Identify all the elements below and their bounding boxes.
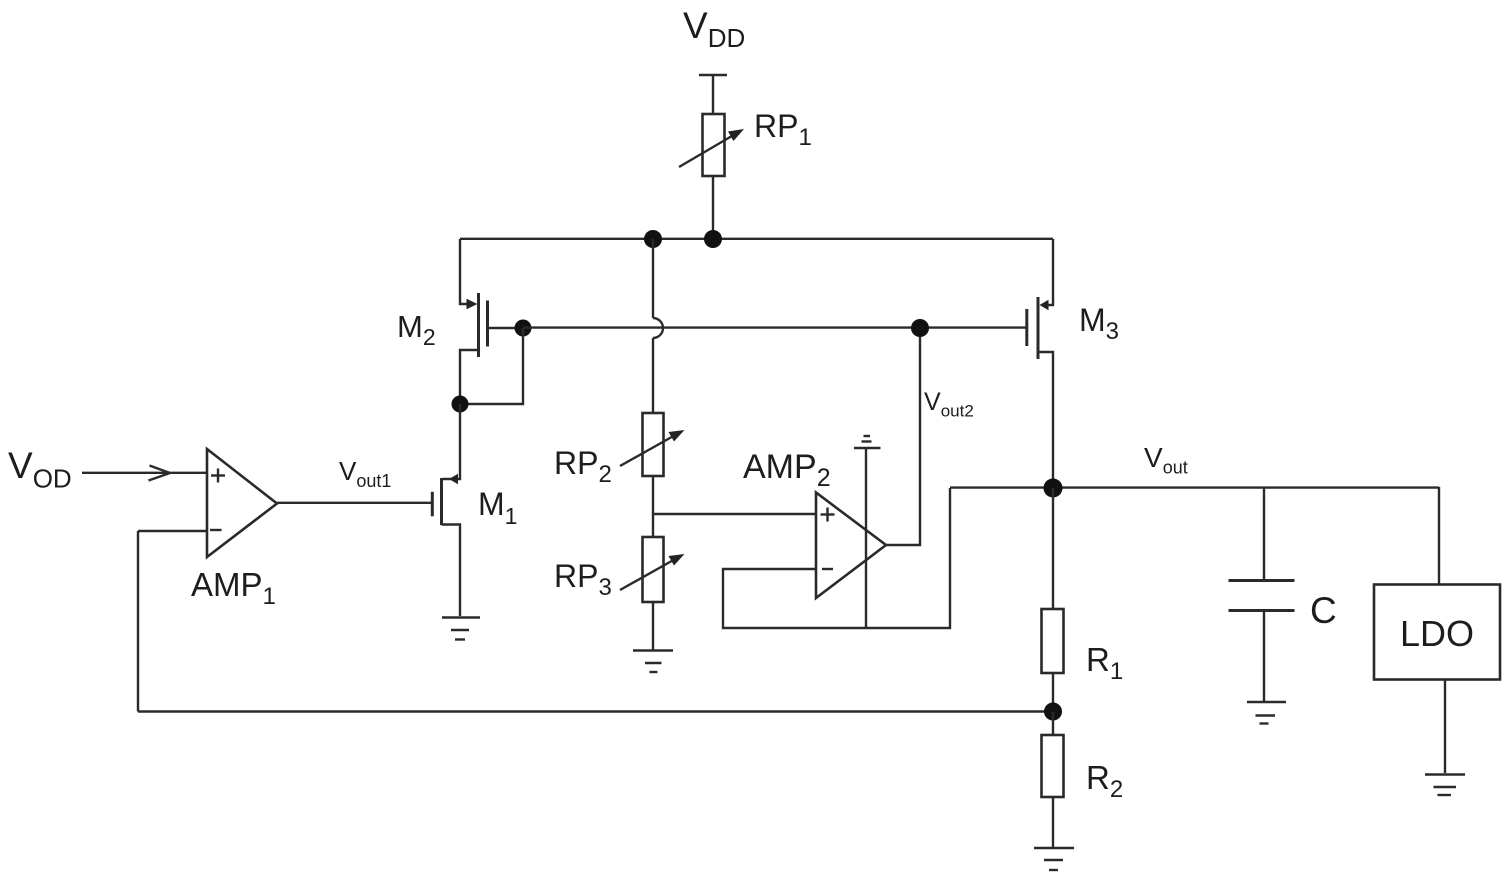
wire RP1 to rail bbox=[712, 176, 714, 239]
wire Vout to LDO bbox=[1438, 487, 1440, 585]
op-amp AMP2 bbox=[816, 493, 886, 599]
wire rail to M2 source bbox=[460, 239, 470, 304]
wire R2 to ground bbox=[1052, 797, 1054, 847]
resistor R1 bbox=[1042, 609, 1064, 673]
transistor M2 bbox=[460, 293, 523, 404]
junction dot rail-left bbox=[644, 230, 662, 248]
ground AMP2 (inverted) bbox=[854, 436, 881, 628]
wire rail to RP2 with hop bbox=[653, 239, 663, 413]
svg-text:LDO: LDO bbox=[1400, 613, 1474, 654]
junction dot rail-RP1 bbox=[704, 230, 722, 248]
wire LDO to ground bbox=[1444, 680, 1446, 774]
wire AMP1 output to M1 gate bbox=[277, 502, 432, 504]
transistor M1 bbox=[432, 474, 460, 616]
junction dot Vout2 bbox=[911, 319, 929, 337]
resistor RP3 (variable) bbox=[620, 537, 685, 602]
wire VOD input with arrow bbox=[82, 466, 207, 481]
resistor R2 bbox=[1042, 735, 1064, 797]
transistor M3 bbox=[1027, 239, 1053, 488]
wire AMP1 inverting input bbox=[138, 530, 207, 532]
wire node A to M1 drain bbox=[442, 404, 460, 479]
wire RP2 to RP3 bbox=[652, 476, 654, 537]
VDD supply bar bbox=[699, 75, 727, 114]
wire AMP2 output to Vout2 node bbox=[886, 328, 920, 545]
ground R2 bbox=[1034, 848, 1074, 870]
capacitor C bbox=[1229, 488, 1295, 701]
wire AMP1 feedback down bbox=[137, 531, 139, 712]
junction dot Vout bbox=[1044, 479, 1063, 498]
wire Vout line bbox=[950, 486, 1439, 488]
wire gate bus M2 to M3 bbox=[523, 326, 1027, 328]
wire node B to R2 bbox=[1052, 712, 1054, 736]
wire RP3 to ground bbox=[652, 602, 654, 650]
resistor RP2 (variable) bbox=[620, 413, 685, 476]
junction dot M2 gate bbox=[515, 320, 532, 337]
wire tap to AMP2 plus bbox=[653, 513, 816, 515]
wire Vout to R1 bbox=[1052, 488, 1054, 609]
ground C bbox=[1247, 702, 1286, 724]
op-amp AMP1 bbox=[207, 449, 277, 557]
wire bottom feedback bbox=[138, 710, 1053, 712]
block LDO bbox=[1374, 585, 1500, 680]
resistor RP1 (variable) bbox=[679, 114, 744, 176]
wire AMP2 inverting loop bbox=[723, 488, 950, 628]
wire top rail bbox=[460, 238, 1053, 240]
junction dot node A bbox=[452, 396, 469, 413]
wire R1 to node B bbox=[1052, 673, 1054, 712]
junction dot node B bbox=[1044, 703, 1062, 721]
ground LDO bbox=[1425, 775, 1465, 796]
svg-text:C: C bbox=[1310, 590, 1337, 631]
ground RP3 bbox=[633, 651, 673, 673]
wire M2 gate to drain node bbox=[460, 328, 523, 404]
ground M1 bbox=[442, 618, 480, 640]
